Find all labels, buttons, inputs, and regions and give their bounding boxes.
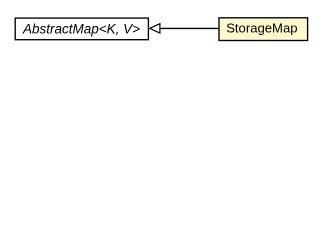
svg-text:StorageMap: StorageMap — [226, 21, 297, 36]
class box AbstractMap<K, V> — [15, 18, 148, 40]
wire: inheritance connector line — [160, 27, 220, 29]
class box StorageMap (highlighted) — [219, 18, 308, 41]
hollow triangle generalization arrowhead — [150, 24, 160, 33]
svg-text:AbstractMap<K, V>: AbstractMap<K, V> — [22, 22, 140, 37]
